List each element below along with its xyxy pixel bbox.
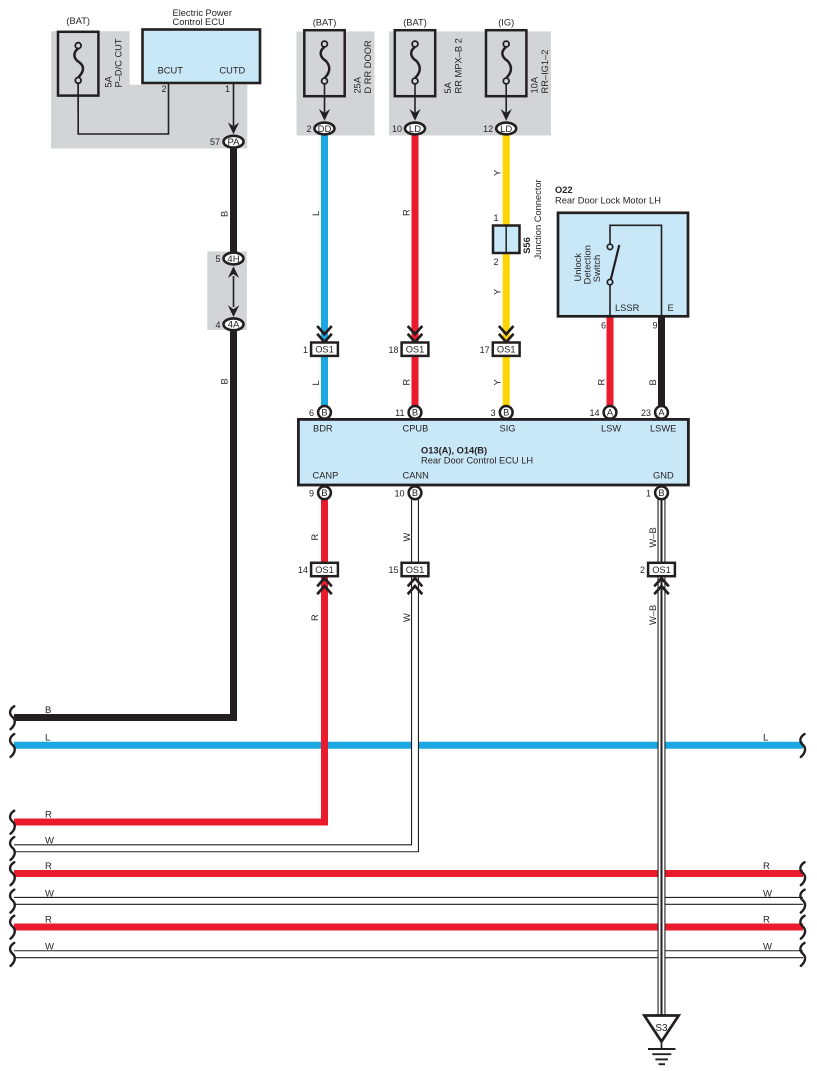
junction block panel (D RR DOOR fuse) xyxy=(297,31,375,135)
continuation brace left, wire W y=900.9 xyxy=(10,890,15,913)
svg-text:1: 1 xyxy=(493,213,498,223)
svg-text:R: R xyxy=(401,379,411,386)
svg-text:(BAT): (BAT) xyxy=(403,17,427,27)
svg-text:14: 14 xyxy=(298,565,308,575)
svg-text:11: 11 xyxy=(395,408,404,418)
svg-text:1: 1 xyxy=(303,345,308,355)
svg-text:B: B xyxy=(45,705,51,716)
svg-text:OS1: OS1 xyxy=(497,345,516,355)
svg-text:DD: DD xyxy=(318,124,332,135)
relay block panel (Electric Power Control ECU area) xyxy=(51,31,247,148)
svg-text:OS1: OS1 xyxy=(315,565,334,575)
svg-text:9: 9 xyxy=(652,320,657,330)
svg-text:17: 17 xyxy=(480,345,490,355)
fuse 25A D RR DOOR xyxy=(304,30,344,96)
wire B black: PA to 4H xyxy=(230,148,237,253)
continuation brace left, wire R y=873.5 xyxy=(10,862,15,885)
svg-text:25A: 25A xyxy=(353,76,363,93)
svg-text:LSWE: LSWE xyxy=(650,424,676,434)
svg-text:B: B xyxy=(220,211,230,217)
svg-text:(BAT): (BAT) xyxy=(313,17,337,27)
svg-text:14: 14 xyxy=(589,408,599,418)
svg-text:CPUB: CPUB xyxy=(403,424,429,434)
svg-text:R: R xyxy=(596,379,606,386)
svg-text:OS1: OS1 xyxy=(315,345,334,355)
svg-text:O13(A), O14(B): O13(A), O14(B) xyxy=(421,445,487,455)
arrow into connector DD xyxy=(319,109,330,121)
wire W-B: GND pin 1 down to ground S3 xyxy=(658,487,666,1017)
svg-text:B: B xyxy=(503,408,509,418)
svg-text:B: B xyxy=(321,488,327,498)
svg-text:2: 2 xyxy=(161,84,166,94)
ground S3 xyxy=(644,1016,678,1042)
unlock detection switch contacts xyxy=(607,244,612,249)
svg-text:9: 9 xyxy=(309,489,314,499)
wire Y yellow: LD to SIG pin 3 via S56 xyxy=(503,134,510,408)
svg-text:B: B xyxy=(220,378,230,384)
svg-text:6: 6 xyxy=(601,320,606,330)
svg-text:R: R xyxy=(763,914,770,925)
wire fuse bottom to BCUT pin 2 xyxy=(78,83,168,134)
svg-text:B: B xyxy=(658,488,664,498)
svg-text:10: 10 xyxy=(394,489,404,499)
fuse 5A RR MPX-B 2 xyxy=(395,30,435,96)
junction arrows between 4H and 4A xyxy=(228,266,239,278)
svg-text:4A: 4A xyxy=(228,320,240,331)
fuse 10A RR-IG1-2 xyxy=(486,30,526,96)
svg-text:R: R xyxy=(401,209,411,216)
wire R red bus 3: full width xyxy=(14,924,803,931)
svg-text:5: 5 xyxy=(215,254,220,264)
continuation brace left, wire W y=848.3 xyxy=(10,837,15,860)
svg-text:Control ECU: Control ECU xyxy=(173,17,225,27)
svg-text:2: 2 xyxy=(640,565,645,575)
svg-text:RR–IG1–2: RR–IG1–2 xyxy=(540,50,550,94)
wire R red: O22 LSSR pin 6 to LSW pin 14 xyxy=(607,316,614,408)
continuation brace left, wire R y=822 xyxy=(10,811,15,834)
svg-text:1: 1 xyxy=(225,84,230,94)
svg-text:BDR: BDR xyxy=(313,424,333,434)
svg-text:GND: GND xyxy=(653,471,674,481)
connector 17 OS1 (upper row, x=506.2) xyxy=(499,326,514,334)
continuation brace right, wire R y=873.5 xyxy=(800,862,805,885)
wire W white bus 2: full width xyxy=(14,897,803,905)
pin 9 (B) xyxy=(318,486,331,499)
svg-text:Junction Connector: Junction Connector xyxy=(533,179,543,259)
svg-text:Detection: Detection xyxy=(583,245,593,284)
ECU O13(A),O14(B) Rear Door Control ECU LH xyxy=(298,419,688,485)
svg-text:6: 6 xyxy=(309,408,314,418)
svg-text:A: A xyxy=(658,408,665,418)
svg-text:R: R xyxy=(45,861,52,872)
svg-text:B: B xyxy=(412,488,418,498)
pin 6 (B) xyxy=(318,406,331,419)
svg-text:23: 23 xyxy=(641,408,651,418)
connector 2 OS1 (lower row, x=661.5) xyxy=(648,563,675,576)
svg-text:LD: LD xyxy=(409,124,421,135)
svg-text:2: 2 xyxy=(306,124,311,134)
wire CUTD pin 1 to connector PA xyxy=(233,83,235,126)
svg-text:(IG): (IG) xyxy=(498,17,514,27)
continuation brace left, wire W y=954.2 xyxy=(10,943,15,966)
svg-text:Rear Door Lock Motor LH: Rear Door Lock Motor LH xyxy=(555,196,661,206)
svg-text:CANN: CANN xyxy=(403,471,429,481)
svg-text:Y: Y xyxy=(493,170,503,176)
svg-text:L: L xyxy=(45,733,50,744)
connector 15 OS1 (lower row, x=415) xyxy=(402,563,429,576)
svg-text:4H: 4H xyxy=(227,254,239,265)
svg-text:OS1: OS1 xyxy=(652,565,671,575)
wire B black bus: left edge to 4A column corner xyxy=(14,331,234,718)
svg-text:3: 3 xyxy=(491,408,496,418)
svg-text:Y: Y xyxy=(493,379,503,385)
connector 18 OS1 (upper row, x=415) xyxy=(408,326,423,334)
svg-text:4: 4 xyxy=(215,320,220,330)
wire R red: CANP pin 9 down, corner left to bus xyxy=(14,487,325,822)
switch internal wiring xyxy=(610,225,662,316)
svg-text:S3: S3 xyxy=(655,1023,668,1034)
svg-text:R: R xyxy=(310,614,320,621)
svg-text:R: R xyxy=(45,914,52,925)
svg-text:B: B xyxy=(412,408,418,418)
arrow into connector LD xyxy=(409,109,420,121)
svg-text:PA: PA xyxy=(228,137,241,148)
svg-text:Rear Door Control ECU LH: Rear Door Control ECU LH xyxy=(421,456,533,466)
svg-text:RR MPX–B 2: RR MPX–B 2 xyxy=(454,38,464,93)
svg-text:R: R xyxy=(310,534,320,541)
svg-text:5A: 5A xyxy=(443,81,453,93)
op box U: Electric Power Control ECU xyxy=(143,30,261,84)
svg-text:W: W xyxy=(45,888,54,899)
svg-text:LSW: LSW xyxy=(601,424,621,434)
svg-text:L: L xyxy=(311,380,321,385)
svg-text:1: 1 xyxy=(646,489,651,499)
svg-text:W–B: W–B xyxy=(648,605,658,625)
svg-text:(BAT): (BAT) xyxy=(66,16,90,26)
wire W white bus 3: full width xyxy=(14,950,803,958)
pin 10 (B) xyxy=(409,486,422,499)
svg-text:B: B xyxy=(648,379,658,385)
svg-text:R: R xyxy=(763,861,770,872)
svg-text:W: W xyxy=(402,533,412,542)
svg-text:W: W xyxy=(45,836,54,847)
svg-text:L: L xyxy=(763,733,768,744)
wire L blue: DD to BDR pin 6 xyxy=(321,134,328,408)
svg-text:P–D/C CUT: P–D/C CUT xyxy=(114,38,124,87)
arrow into connector LD xyxy=(501,109,512,121)
svg-text:2: 2 xyxy=(493,257,498,267)
wire R red: LD to CPUB pin 11 xyxy=(412,134,419,408)
svg-text:B: B xyxy=(321,408,327,418)
svg-text:W: W xyxy=(402,613,412,622)
svg-text:W: W xyxy=(763,942,772,953)
svg-text:A: A xyxy=(607,408,614,418)
pin 14 (A) xyxy=(604,406,617,419)
svg-text:Unlock: Unlock xyxy=(573,253,583,282)
svg-text:10A: 10A xyxy=(530,76,540,93)
junction block panel (RR MPX-B 2 / RR-IG1-2 fuses) xyxy=(389,31,551,135)
pin 3 (B) xyxy=(500,406,513,419)
svg-text:W: W xyxy=(763,888,772,899)
svg-text:BCUT: BCUT xyxy=(158,66,184,76)
continuation brace right, wire R y=927 xyxy=(800,916,805,939)
continuation brace left, wire L y=745.3 xyxy=(10,734,15,757)
svg-text:Switch: Switch xyxy=(592,255,602,282)
svg-text:SIG: SIG xyxy=(500,424,516,434)
svg-text:W: W xyxy=(45,942,54,953)
wire R red bus 2: full width xyxy=(14,870,803,877)
svg-text:CANP: CANP xyxy=(313,471,339,481)
svg-text:LSSR: LSSR xyxy=(615,303,640,313)
svg-text:LD: LD xyxy=(500,124,512,135)
svg-text:CUTD: CUTD xyxy=(219,66,245,76)
pin 1 (B) xyxy=(655,486,668,499)
continuation brace right, wire W y=954.2 xyxy=(800,943,805,966)
svg-text:10: 10 xyxy=(392,124,402,134)
pin 11 (B) xyxy=(409,406,422,419)
continuation brace left, wire R y=927 xyxy=(10,916,15,939)
wire L blue bus: full width xyxy=(14,742,803,749)
svg-text:Y: Y xyxy=(493,289,503,295)
wire W white: CANN pin 10 down, corner left to bus xyxy=(14,487,415,848)
connector 1 OS1 (upper row, x=324.5) xyxy=(317,326,332,334)
svg-text:5A: 5A xyxy=(104,75,114,87)
svg-text:S56: S56 xyxy=(522,237,532,254)
connector 14 OS1 (lower row, x=324.5) xyxy=(311,563,338,576)
svg-text:O22: O22 xyxy=(555,185,573,195)
svg-text:OS1: OS1 xyxy=(406,565,425,575)
continuation brace left, wire B y=717.5 xyxy=(10,706,15,729)
svg-text:12: 12 xyxy=(483,124,493,134)
pin 23 (A) xyxy=(655,406,668,419)
continuation brace right, wire W y=900.9 xyxy=(800,890,805,913)
continuation brace right, wire L y=745.3 xyxy=(800,734,805,757)
wire B black: O22 E pin 9 to LSWE pin 23 xyxy=(658,316,665,408)
svg-text:D RR DOOR: D RR DOOR xyxy=(363,40,373,93)
svg-text:R: R xyxy=(45,809,52,820)
svg-text:18: 18 xyxy=(388,345,398,355)
fuse 5A P-D/C CUT xyxy=(58,32,98,96)
svg-text:57: 57 xyxy=(210,137,220,147)
svg-text:OS1: OS1 xyxy=(406,345,425,355)
svg-text:L: L xyxy=(311,211,321,216)
svg-text:E: E xyxy=(668,303,674,313)
svg-text:15: 15 xyxy=(388,565,398,575)
svg-text:W–B: W–B xyxy=(648,527,658,547)
connector block panel (4H/4A) xyxy=(207,251,247,330)
